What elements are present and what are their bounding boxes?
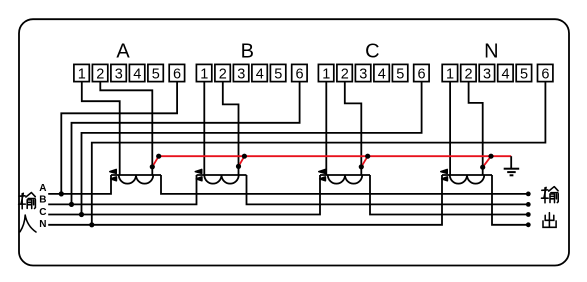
terminal C3 <box>355 64 370 82</box>
svg-text:A: A <box>39 183 46 194</box>
svg-text:5: 5 <box>152 66 160 82</box>
wire N6 to bus N <box>92 82 546 225</box>
wire row C right <box>370 175 527 215</box>
wire row C left <box>48 175 320 215</box>
terminal C2 <box>337 64 352 82</box>
junction dot bus C <box>79 212 84 217</box>
terminal N5 <box>516 64 531 82</box>
wire row N left <box>48 175 442 225</box>
CT1 transformer <box>110 170 161 184</box>
svg-text:4: 4 <box>133 66 141 82</box>
terminal N6 <box>538 64 553 82</box>
svg-text:2: 2 <box>341 66 349 82</box>
wire row N right <box>492 175 527 225</box>
wire B1 to CT2 <box>203 82 205 175</box>
ground symbol <box>504 156 520 175</box>
wire C1 to CT3 <box>325 82 327 175</box>
junction dot bus B <box>69 202 74 207</box>
wire row B right <box>247 175 527 204</box>
output dot A <box>526 192 531 197</box>
svg-text:1: 1 <box>322 66 330 82</box>
svg-text:B: B <box>241 41 254 63</box>
svg-text:3: 3 <box>359 66 367 82</box>
terminal N1 <box>442 64 457 82</box>
svg-text:5: 5 <box>274 66 282 82</box>
junction dot CT4 lower <box>480 165 485 170</box>
svg-text:4: 4 <box>378 66 386 82</box>
junction dot CT1 lower <box>150 164 155 169</box>
terminal B5 <box>270 64 285 82</box>
junction dot bus A <box>59 191 64 196</box>
red bus wire <box>159 155 512 157</box>
svg-text:6: 6 <box>418 66 426 82</box>
junction dot CT3 lower <box>359 164 364 169</box>
terminal B1 <box>196 64 211 82</box>
CT3 transformer <box>319 170 370 184</box>
junction dot CT1 upper <box>156 154 161 159</box>
svg-text:5: 5 <box>396 66 404 82</box>
terminal C5 <box>392 64 407 82</box>
output dot C <box>526 212 531 217</box>
junction dot CT2 upper <box>242 154 247 159</box>
terminal B3 <box>233 64 248 82</box>
red link CT3 <box>361 156 367 167</box>
svg-text:4: 4 <box>502 66 510 82</box>
svg-text:N: N <box>484 41 498 63</box>
terminal A6 <box>169 64 184 82</box>
red link CT2 <box>239 156 245 166</box>
text ru (input) <box>20 215 36 232</box>
output dot B <box>526 202 531 207</box>
wire C2 to CT3 dot <box>345 82 362 175</box>
terminal N4 <box>498 64 513 82</box>
svg-text:3: 3 <box>483 66 491 82</box>
wire A6 to bus A <box>61 82 177 194</box>
wire C6 to bus C <box>82 82 422 215</box>
svg-text:C: C <box>365 41 379 63</box>
wire A2 to CT1 dot <box>100 82 152 175</box>
red link CT4 <box>483 156 491 167</box>
svg-text:A: A <box>116 41 130 63</box>
svg-text:B: B <box>39 195 46 206</box>
text shu (output) <box>542 187 559 203</box>
svg-text:2: 2 <box>96 66 104 82</box>
terminal B4 <box>252 64 267 82</box>
wire row A left <box>48 175 111 194</box>
terminal A3 <box>111 64 126 82</box>
terminal A2 <box>92 64 107 82</box>
svg-text:6: 6 <box>173 66 181 82</box>
CT2 transformer <box>195 170 246 184</box>
terminal C6 <box>414 64 429 82</box>
svg-text:5: 5 <box>520 66 528 82</box>
wire row A right <box>161 175 527 194</box>
wire A1 to CT1 <box>82 82 120 175</box>
wire B6 to bus B <box>72 82 300 205</box>
svg-text:1: 1 <box>200 66 208 82</box>
CT4 transformer <box>441 170 492 184</box>
terminal A5 <box>148 64 163 82</box>
wire row B left <box>48 175 196 204</box>
svg-text:N: N <box>39 219 46 230</box>
output dot N <box>526 222 531 227</box>
text shu (input) <box>19 193 36 209</box>
text chu (output) <box>543 213 556 228</box>
junction dot CT3 upper <box>365 154 370 159</box>
terminal C1 <box>318 64 333 82</box>
svg-text:6: 6 <box>541 66 549 82</box>
svg-text:1: 1 <box>78 66 86 82</box>
svg-text:2: 2 <box>219 66 227 82</box>
terminal A1 <box>74 64 89 82</box>
junction dot CT4 upper <box>488 154 493 159</box>
terminal C4 <box>374 64 389 82</box>
wire N1 to CT4 <box>449 82 451 175</box>
svg-text:2: 2 <box>465 66 473 82</box>
svg-text:3: 3 <box>237 66 245 82</box>
svg-text:1: 1 <box>446 66 454 82</box>
terminal B6 <box>292 64 307 82</box>
red link CT1 <box>152 156 158 167</box>
wire N2 to CT4 dot <box>469 82 483 175</box>
svg-text:3: 3 <box>115 66 123 82</box>
wire B2 to CT2 dot <box>223 82 239 175</box>
svg-text:6: 6 <box>296 66 304 82</box>
terminal N3 <box>479 64 494 82</box>
svg-text:C: C <box>39 207 46 218</box>
terminal A4 <box>129 64 144 82</box>
junction dot CT2 lower <box>236 164 241 169</box>
terminal N2 <box>461 64 476 82</box>
terminal B2 <box>215 64 230 82</box>
junction dot bus N <box>89 222 94 227</box>
svg-text:4: 4 <box>256 66 264 82</box>
